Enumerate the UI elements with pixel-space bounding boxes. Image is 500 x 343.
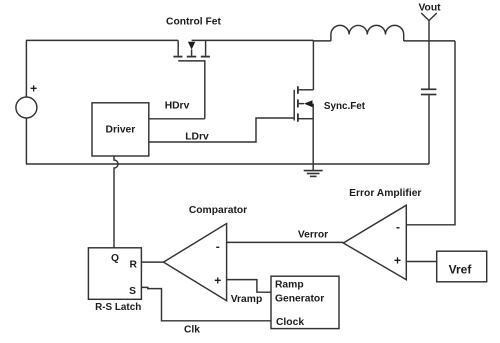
svg-text:Clock: Clock	[276, 317, 304, 328]
svg-text:Error Amplifier: Error Amplifier	[349, 188, 421, 199]
svg-text:Ramp: Ramp	[275, 280, 304, 291]
svg-text:-: -	[216, 240, 220, 254]
svg-text:-: -	[396, 220, 400, 234]
svg-text:+: +	[214, 274, 221, 288]
svg-text:+: +	[394, 253, 401, 267]
svg-text:Vref: Vref	[449, 262, 473, 276]
svg-text:Generator: Generator	[275, 294, 324, 305]
svg-text:Sync.Fet: Sync.Fet	[324, 101, 366, 112]
svg-text:R: R	[129, 259, 137, 270]
svg-text:HDrv: HDrv	[165, 100, 190, 111]
svg-text:Q: Q	[111, 253, 119, 264]
svg-text:LDrv: LDrv	[185, 131, 209, 142]
svg-text:Verror: Verror	[298, 230, 328, 241]
svg-text:Driver: Driver	[106, 125, 136, 136]
svg-text:S: S	[129, 286, 136, 297]
svg-text:+: +	[30, 82, 37, 96]
svg-text:Vout: Vout	[418, 3, 441, 14]
svg-text:Control Fet: Control Fet	[166, 17, 221, 28]
svg-text:Clk: Clk	[184, 325, 200, 336]
svg-text:Comparator: Comparator	[189, 205, 247, 216]
svg-text:R-S Latch: R-S Latch	[95, 302, 141, 313]
svg-text:Vramp: Vramp	[231, 294, 262, 305]
